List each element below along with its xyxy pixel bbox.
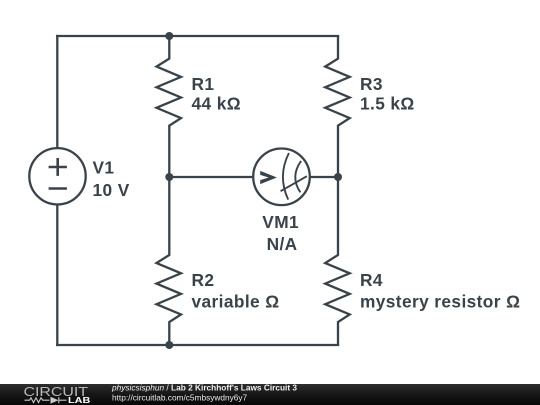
svg-text:R4: R4 bbox=[360, 270, 383, 290]
CircuitLab logo bbox=[24, 384, 91, 405]
voltage source V1 bbox=[29, 148, 85, 204]
svg-text:VM1: VM1 bbox=[262, 212, 299, 232]
svg-text:mystery resistor Ω: mystery resistor Ω bbox=[360, 291, 520, 311]
node middle junction bbox=[165, 173, 173, 181]
resistor R4 bbox=[325, 177, 350, 345]
svg-text:http://circuitlab.com/c5mbsywd: http://circuitlab.com/c5mbsywdny6y7 bbox=[112, 393, 247, 403]
resistor R2 bbox=[157, 177, 182, 345]
svg-text:10 V: 10 V bbox=[93, 180, 130, 200]
svg-text:N/A: N/A bbox=[267, 234, 298, 254]
wire top bbox=[56, 35, 339, 37]
svg-text:R1: R1 bbox=[192, 74, 215, 94]
resistor R1 bbox=[157, 36, 182, 177]
resistor R3 bbox=[325, 36, 350, 177]
wire left upper bbox=[56, 35, 58, 148]
svg-text:LAB: LAB bbox=[68, 395, 90, 405]
svg-text:44 kΩ: 44 kΩ bbox=[192, 94, 242, 114]
svg-text:physicsisphun / Lab 2 Kirchhof: physicsisphun / Lab 2 Kirchhoff's Laws C… bbox=[111, 382, 297, 392]
node bottom junction bbox=[165, 341, 173, 349]
node right junction bbox=[334, 173, 342, 181]
svg-text:1.5 kΩ: 1.5 kΩ bbox=[360, 94, 415, 114]
footer bar bbox=[0, 384, 540, 405]
svg-text:variable Ω: variable Ω bbox=[192, 291, 280, 311]
wire middle node bbox=[169, 176, 253, 178]
voltmeter VM1 bbox=[253, 149, 310, 206]
svg-text:R3: R3 bbox=[360, 74, 383, 94]
wire bottom bbox=[56, 344, 339, 346]
wire left lower bbox=[56, 204, 58, 346]
svg-text:R2: R2 bbox=[192, 270, 215, 290]
wire VM1 right bbox=[310, 176, 340, 178]
node top junction bbox=[165, 32, 173, 40]
svg-text:V1: V1 bbox=[93, 158, 115, 178]
